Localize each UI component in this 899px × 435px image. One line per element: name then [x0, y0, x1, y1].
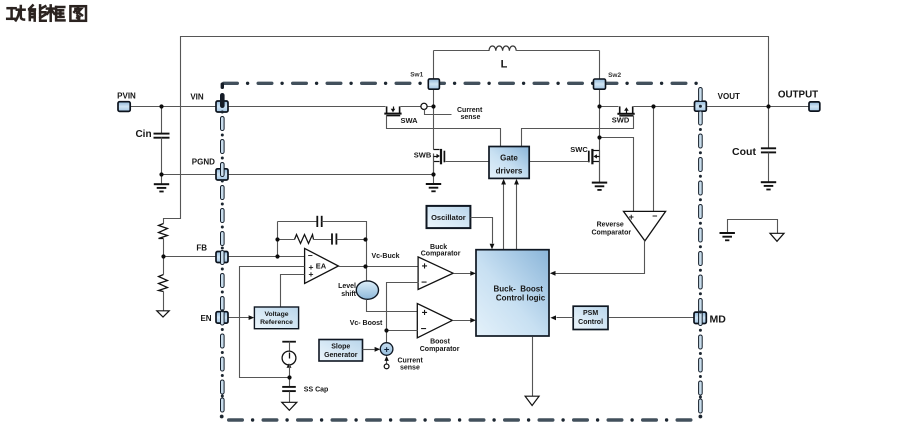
svg-text:Comparator: Comparator [420, 346, 460, 353]
pin PGND [216, 169, 228, 180]
label Vc-Boost [350, 320, 383, 327]
svg-text:Level: Level [338, 283, 356, 290]
wire: VOUT sense loop (top rail) [164, 37, 769, 224]
svg-text:+: + [422, 308, 428, 319]
pin EN [216, 312, 228, 323]
wire: current sense input to summer [384, 356, 388, 365]
summing junction [380, 343, 393, 356]
label FB [196, 244, 207, 253]
svg-text:Sw1: Sw1 [410, 72, 423, 79]
block Gate drivers [489, 147, 529, 179]
pin OUTPUT [809, 102, 820, 111]
wire: MD pin to PSM control [609, 317, 695, 319]
wire: R3 to C2 [314, 239, 333, 241]
svg-text:+: + [422, 262, 428, 273]
ground (earth) bottom right [720, 233, 735, 240]
wire: Cin top lead [161, 107, 163, 134]
block Oscillator [427, 206, 471, 228]
ground under SWB [426, 184, 441, 191]
wire: Sw2 to VOUT node [599, 90, 601, 107]
pin Sw1 [428, 79, 439, 89]
svg-text:+: + [629, 212, 634, 222]
svg-text:VOUT: VOUT [718, 92, 740, 101]
label MD [710, 313, 727, 325]
label SWD [612, 116, 630, 125]
wire: Cin bottom lead to PGND rail [161, 138, 163, 175]
ground under SWC [592, 183, 607, 190]
wire: Vc-Boost node to boost comparator - [387, 330, 418, 332]
wire: current sense stub [425, 110, 452, 115]
capacitor C1 (compensation top) [317, 216, 321, 227]
svg-text:Gate: Gate [500, 154, 518, 163]
svg-text:EN: EN [200, 314, 211, 323]
svg-text:PGND: PGND [192, 158, 215, 167]
ground (arrow) below R2 [157, 311, 169, 317]
wire: inductor to Sw2 [599, 51, 601, 80]
wire: VIN pin to SWA drain [229, 106, 386, 108]
op-amp reverse comparator [624, 211, 666, 241]
wire: FB divider node to FB pin [164, 256, 217, 258]
svg-text:drivers: drivers [496, 167, 523, 176]
wire: control logic to gate drivers (right) [514, 179, 519, 250]
wire: VIN node down to SWB drain [433, 107, 435, 150]
soft-start supply bar [282, 342, 296, 352]
label EA [316, 261, 327, 270]
svg-text:Oscillator: Oscillator [431, 213, 466, 222]
svg-text:sense: sense [461, 114, 481, 121]
resistor R1 (FB divider upper) [159, 224, 168, 239]
wire: Cout to ground [768, 153, 770, 183]
transistor SWD [617, 106, 634, 115]
pin PVIN [118, 102, 130, 112]
chip boundary (bottom dash-dot) [220, 415, 703, 422]
wire: control logic bottom output [532, 337, 534, 397]
wire: compensation top branch left [278, 221, 318, 223]
svg-text:−: − [308, 250, 313, 260]
svg-text:FB: FB [196, 244, 207, 253]
ground (arrow) below SS cap [282, 402, 297, 410]
current sense input terminal [384, 364, 389, 369]
label SWB [414, 150, 432, 159]
label Current sense (top) [457, 107, 483, 121]
transistor SWB [434, 149, 445, 175]
label PVIN [117, 91, 136, 100]
wire: SWA source to SW1 node [401, 106, 434, 108]
wire: switch node to reverse comparator + [600, 138, 634, 212]
wire: switch node to SWD drain [600, 106, 619, 108]
svg-text:Voltage: Voltage [264, 311, 288, 318]
svg-text:EA: EA [316, 261, 327, 270]
wire: buck comparator output to control logic [454, 271, 476, 276]
svg-text:shift: shift [341, 291, 356, 298]
ground under Cin [154, 184, 169, 191]
current sense tap (circle) [421, 103, 427, 109]
label OUTPUT [778, 90, 818, 101]
wire: PGND rail (left) [162, 174, 217, 176]
svg-text:Current: Current [398, 357, 424, 364]
svg-text:Slope: Slope [331, 344, 350, 351]
svg-text:Cout: Cout [732, 146, 756, 158]
wire: slope generator to summer [363, 347, 381, 352]
svg-text:Boost: Boost [430, 339, 451, 346]
transistor SWA [384, 106, 401, 115]
current source (soft start) [282, 351, 296, 368]
wire: stub to ground under SWB [433, 175, 435, 185]
svg-text:Control logic: Control logic [496, 293, 546, 302]
op-amp boost comparator [417, 304, 452, 338]
svg-text:PSM: PSM [583, 310, 598, 317]
svg-text:SWB: SWB [414, 150, 432, 159]
op-amp buck comparator [418, 257, 453, 290]
wire + inductor L loop [434, 46, 600, 51]
wire: reverse comparator output to control logic [550, 241, 645, 276]
wire: stub to ground under Cin [161, 175, 163, 185]
wire: SS node to SS cap [289, 378, 291, 387]
capacitor Cin [154, 134, 170, 138]
label EN [200, 314, 211, 323]
wire: EA + input from voltage reference [281, 275, 305, 308]
pin FB [216, 252, 228, 263]
svg-text:SWA: SWA [400, 116, 418, 125]
svg-text:MD: MD [710, 313, 727, 325]
capacitor SS Cap [282, 387, 296, 391]
wire: R1 to FB node [163, 239, 165, 257]
svg-text:L: L [501, 59, 508, 71]
resistor R3 (compensation) [295, 235, 314, 244]
svg-text:Sw2: Sw2 [608, 72, 621, 79]
wire: switch node to SWC drain [599, 138, 601, 151]
wire: SWB gate to gate drivers [446, 161, 490, 163]
pin VOUT [695, 101, 707, 111]
wire: Sw1 to VIN node [433, 90, 435, 107]
label Cout [732, 146, 756, 158]
block PSM Control [573, 306, 608, 329]
svg-text:Comparator: Comparator [591, 229, 631, 236]
svg-text:OUTPUT: OUTPUT [778, 90, 818, 101]
wire: PVIN to VIN pin [131, 106, 217, 108]
svg-text:Generator: Generator [324, 352, 358, 359]
wire: FB node up to compensation [277, 222, 279, 257]
chip boundary (top dash-dot) [221, 82, 698, 89]
svg-text:Comparator: Comparator [421, 250, 461, 257]
wire: FB pin to EA inverting input [229, 256, 305, 258]
ground (arrow) bottom right [770, 233, 784, 241]
svg-text:Reverse: Reverse [597, 222, 624, 229]
svg-text:Reference: Reference [260, 319, 293, 326]
svg-text:Buck- Boost: Buck- Boost [494, 284, 544, 293]
wire: ground tie bracket [728, 220, 778, 234]
block Buck-Boost Control logic [476, 250, 549, 336]
label SWC [570, 145, 588, 154]
svg-text:SS Cap: SS Cap [304, 386, 329, 393]
wire: EN pin to voltage reference [229, 315, 255, 320]
label VIN [190, 92, 204, 101]
op-amp EA (error amplifier) [305, 248, 339, 283]
wire: gate drivers to SWC gate [530, 161, 589, 163]
svg-text:sense: sense [400, 364, 420, 371]
wire: PGND pin to SWB source node [229, 174, 434, 176]
label Buck Comparator [421, 244, 461, 257]
wire: C2 to output node [337, 239, 367, 241]
title 功能框图 (Functional Block Diagram) [7, 5, 86, 20]
wire: oscillator to control logic [471, 218, 495, 250]
wire: level shift to boost comparator + [367, 300, 418, 312]
label Reverse Comparator [591, 222, 631, 237]
capacitor C2 (compensation) [332, 233, 336, 244]
svg-text:+: + [384, 344, 390, 355]
wire: Sw1 to inductor [433, 51, 435, 79]
wire: control logic to gate drivers (left) [501, 179, 506, 250]
label Cin [135, 129, 151, 140]
svg-text:−: − [421, 278, 427, 289]
label SS Cap [304, 386, 329, 393]
svg-text:−: − [652, 211, 657, 221]
pin MD [694, 312, 706, 323]
label L [501, 59, 508, 71]
wire: R2 to ground [163, 292, 165, 311]
wire: VOUT to reverse comparator - [653, 107, 655, 212]
svg-text:Cin: Cin [135, 129, 151, 140]
wire: current source to SS node [289, 365, 291, 378]
label VOUT [718, 92, 740, 101]
label Sw2 [608, 72, 621, 79]
label SWA [400, 116, 418, 125]
wire: summer output to buck comparator - [387, 283, 419, 343]
svg-text:+: + [309, 269, 314, 279]
wire: compensation lower branch left [278, 239, 295, 241]
wire: SWD source to VOUT pin [634, 106, 695, 108]
svg-text:Current: Current [457, 107, 483, 114]
svg-text:Vc- Boost: Vc- Boost [350, 320, 383, 327]
wire: Vc-Buck node to level shift [366, 267, 368, 283]
svg-text:SWD: SWD [612, 116, 630, 125]
wire: VOUT node to Cout [768, 107, 770, 149]
wire: VOUT pin to OUTPUT [707, 106, 810, 108]
label Current sense (bottom) [398, 357, 424, 371]
level shift circle [356, 281, 378, 299]
svg-text:PVIN: PVIN [117, 91, 136, 100]
chip boundary (left dash-dot) [221, 94, 225, 413]
wire: SS cap to ground [289, 392, 291, 403]
wire: compensation to Vc-Buck node [366, 240, 368, 267]
label Boost Comparator [420, 339, 460, 353]
svg-text:−: − [421, 324, 427, 335]
wire: boost comparator output to control logic [453, 318, 476, 323]
wire: PSM control to control logic [550, 315, 573, 320]
svg-text:SWC: SWC [570, 145, 588, 154]
wire: SWA gate to gate drivers [387, 116, 501, 147]
wire: EA output (Vc-Buck) to buck comparator + [339, 266, 419, 268]
resistor R2 (FB divider lower) [159, 275, 168, 292]
svg-text:VIN: VIN [190, 92, 204, 101]
label Vc-Buck [372, 253, 400, 260]
pin VIN [216, 101, 228, 112]
svg-text:Vc-Buck: Vc-Buck [372, 253, 400, 260]
wire: VOUT node to switch node [599, 107, 601, 138]
pin Sw2 [594, 79, 606, 89]
label PGND [192, 158, 215, 167]
label Sw1 [410, 72, 423, 79]
ground under Cout [761, 182, 776, 189]
wire: FB node to R2 [163, 257, 165, 275]
label Level shift [338, 283, 357, 298]
block Voltage Reference [254, 307, 298, 329]
open arrow below control logic [525, 396, 539, 405]
transistor SWC [589, 149, 600, 183]
wire: EA + input from soft-start node [240, 267, 305, 378]
svg-text:Control: Control [578, 319, 603, 326]
wire: compensation top branch right [322, 222, 367, 240]
chip boundary (right dash-dot) [699, 88, 703, 414]
capacitor Cout [761, 148, 776, 152]
wire: SWD gate to gate drivers [522, 116, 634, 147]
block Slope Generator [319, 340, 363, 362]
